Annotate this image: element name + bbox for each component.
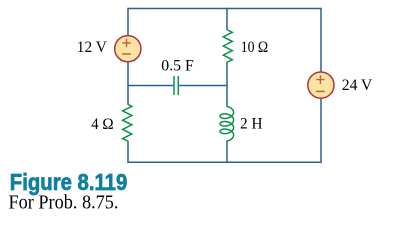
- 24V minus sign: [316, 90, 325, 92]
- svg-text:12 V: 12 V: [77, 39, 107, 56]
- svg-text:4 Ω: 4 Ω: [91, 116, 114, 133]
- resistor 4 ohm zigzag: [123, 104, 132, 141]
- wire top rail: [128, 8, 321, 10]
- wire middle branch, top rail to 10-ohm resistor: [226, 8, 228, 31]
- 24V plus sign: [316, 75, 325, 84]
- wire middle branch, 10-ohm resistor to node B and 2H inductor: [226, 62, 228, 107]
- wire capacitor branch, right plate to node B: [179, 85, 227, 87]
- svg-text:24 V: 24 V: [342, 77, 373, 94]
- capacitor 0.5 F plates: [174, 76, 178, 95]
- source 24V circle: [308, 72, 334, 98]
- 12V plus sign: [122, 39, 131, 48]
- wire left branch, 4-ohm resistor to bottom rail: [127, 141, 129, 164]
- svg-text:For Prob. 8.75.: For Prob. 8.75.: [9, 192, 119, 214]
- inductor 2 H coil: [220, 107, 234, 142]
- svg-text:0.5 F: 0.5 F: [161, 57, 194, 74]
- 12V minus sign: [122, 53, 131, 55]
- wire right branch, 24V source to bottom rail: [320, 98, 322, 163]
- wire left branch, 12V source to node A and 4-ohm resistor: [127, 62, 129, 104]
- svg-text:2 H: 2 H: [240, 115, 263, 132]
- wire right branch, top rail to 24V source: [320, 8, 322, 72]
- svg-text:10 Ω: 10 Ω: [241, 39, 269, 56]
- resistor 10 ohm zigzag: [223, 30, 232, 62]
- wire left branch, top rail to 12V source: [127, 8, 129, 36]
- wire bottom rail: [128, 161, 321, 163]
- wire capacitor branch, node A to left plate: [128, 85, 173, 87]
- wire middle branch, 2H inductor to bottom rail: [226, 141, 228, 164]
- source 12V circle: [115, 36, 141, 62]
